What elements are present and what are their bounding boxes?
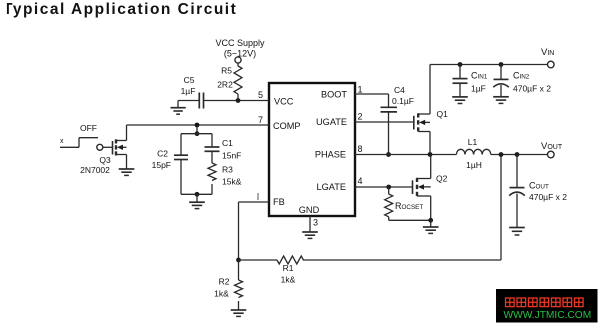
wire RC top rail — [181, 133, 212, 135]
svg-text:470µF x 2: 470µF x 2 — [529, 192, 567, 202]
label 1uF — [181, 86, 196, 96]
ground (COUT) — [509, 228, 525, 236]
label VOUT — [541, 141, 563, 152]
label 1uH — [466, 160, 482, 170]
svg-text:OFF: OFF — [80, 123, 97, 133]
svg-text:15k&: 15k& — [222, 177, 242, 187]
svg-text:15pF: 15pF — [152, 160, 171, 170]
label (5~12V) — [224, 49, 256, 59]
svg-text:VOUT: VOUT — [541, 141, 563, 152]
pin label LGATE — [317, 182, 346, 192]
svg-text:1: 1 — [357, 85, 362, 95]
wire GND pin 3 — [309, 216, 311, 232]
svg-text:L1: L1 — [468, 137, 478, 147]
svg-text:Typical Application Circuit: Typical Application Circuit — [3, 1, 237, 18]
svg-text:2N7002: 2N7002 — [80, 165, 110, 175]
node C4/PHASE junction — [386, 152, 391, 157]
label Q1 — [437, 109, 449, 119]
resistor R2 — [235, 260, 243, 310]
watermark chinese text — [506, 298, 584, 307]
label 2N7002 — [80, 165, 110, 175]
label CIN1 — [471, 71, 488, 81]
pin label FB — [273, 197, 285, 207]
label Rocset — [395, 201, 423, 211]
node PHASE/Q1 source junction — [428, 152, 433, 157]
wire VIN rail — [430, 64, 547, 66]
capacitor CIN2 — [493, 65, 509, 97]
transistor Q3 — [113, 125, 127, 156]
svg-text:Q1: Q1 — [437, 109, 449, 119]
svg-text:GND: GND — [299, 205, 320, 215]
svg-text:2: 2 — [357, 112, 362, 122]
ground (CIN1) — [452, 97, 468, 104]
node COMP junction — [195, 123, 200, 134]
label L1 — [468, 137, 478, 147]
svg-text:0.1µF: 0.1µF — [392, 96, 414, 106]
ground (CIN2) — [493, 97, 509, 104]
svg-text:1µH: 1µH — [466, 160, 482, 170]
IC U1 body — [269, 83, 355, 216]
pin number 1 — [357, 85, 362, 95]
label 15nF — [222, 151, 241, 161]
FB pin tick mark — [257, 193, 259, 200]
node FB divider junction — [236, 258, 241, 263]
svg-text:UGATE: UGATE — [316, 117, 347, 127]
svg-text:BOOT: BOOT — [321, 90, 347, 100]
svg-text:R2: R2 — [219, 277, 230, 287]
label 1k ohm (R1) — [281, 275, 296, 285]
terminal VIN — [548, 61, 555, 68]
svg-text:LGATE: LGATE — [317, 182, 346, 192]
pin number 8 — [357, 144, 362, 154]
capacitor C4 — [381, 107, 398, 154]
resistor R5 — [234, 63, 242, 100]
capacitor COUT — [509, 155, 525, 228]
wire LGATE — [355, 186, 413, 188]
node VCC junction — [236, 98, 241, 103]
pin label COMP — [273, 121, 301, 131]
node RC bottom junction — [195, 192, 200, 197]
svg-text:4: 4 — [357, 176, 362, 186]
label OFF — [80, 123, 97, 133]
svg-text:Q2: Q2 — [436, 174, 448, 184]
svg-text:PHASE: PHASE — [315, 150, 346, 160]
watermark url text — [504, 310, 592, 321]
svg-text:CIN2: CIN2 — [513, 71, 530, 81]
svg-text:R3: R3 — [222, 165, 233, 175]
svg-text:x: x — [60, 138, 64, 145]
Q3 gate terminal circle — [97, 144, 103, 150]
ground (Q3 source) — [119, 155, 135, 176]
svg-text:COMP: COMP — [273, 121, 301, 131]
label C1 — [222, 138, 233, 148]
ground (IC GND) — [302, 232, 318, 238]
node Q2 source/ground junction — [428, 218, 433, 223]
svg-text:C4: C4 — [394, 85, 405, 95]
terminal VOUT — [548, 151, 555, 158]
svg-text:1µF: 1µF — [471, 84, 486, 94]
label COUT — [529, 181, 549, 191]
label C4 — [394, 85, 405, 95]
VCC supply terminal — [235, 57, 241, 63]
pin label VCC — [274, 97, 294, 107]
label 470uF x 2 (COUT) — [529, 192, 567, 202]
wire RC bottom rail — [181, 193, 212, 195]
ground (Q2 source) — [423, 220, 439, 233]
wire VOUT rail — [491, 154, 548, 156]
pin label BOOT — [321, 90, 347, 100]
pin number 5 — [258, 90, 263, 100]
svg-text:COUT: COUT — [529, 181, 549, 191]
label 1k ohm (R2) — [214, 289, 229, 299]
label C5 — [184, 75, 195, 85]
label R5 — [221, 66, 232, 76]
wire FB node to R1 — [239, 259, 278, 261]
node LGATE/Rocset junction — [386, 185, 391, 190]
wire Q2 source rail — [389, 219, 431, 221]
label Q2 — [436, 174, 448, 184]
wire PHASE — [355, 154, 456, 156]
pin number 7 — [258, 115, 263, 125]
svg-text:VCC Supply: VCC Supply — [215, 38, 265, 48]
label 15pF — [152, 160, 171, 170]
pin number 2 — [357, 112, 362, 122]
svg-text:3: 3 — [313, 218, 318, 228]
ground (C5) — [171, 101, 186, 115]
label Q3 — [99, 155, 111, 165]
svg-text:(5~12V): (5~12V) — [224, 49, 256, 59]
wire R1 to feedback riser — [303, 155, 501, 261]
label R3 — [222, 165, 233, 175]
label C2 — [157, 149, 168, 159]
resistor R1 — [277, 256, 303, 264]
svg-text:C5: C5 — [184, 75, 195, 85]
capacitor C1 — [205, 134, 220, 163]
wire Q3 gate — [103, 146, 113, 148]
node CIN2 junction — [499, 62, 504, 67]
label 0.1uF — [392, 96, 414, 106]
svg-text:R5: R5 — [221, 66, 232, 76]
svg-text:1k&: 1k& — [214, 289, 229, 299]
label 470uF x 2 (CIN2) — [513, 84, 551, 94]
svg-text:FB: FB — [273, 197, 285, 207]
pin label UGATE — [316, 117, 347, 127]
svg-text:7: 7 — [258, 115, 263, 125]
svg-text:470µF x 2: 470µF x 2 — [513, 84, 551, 94]
node CIN1 junction — [458, 62, 463, 67]
pin number 3 — [313, 218, 318, 228]
svg-text:Q3: Q3 — [99, 155, 111, 165]
wire UGATE — [355, 121, 414, 123]
label 15k ohm — [222, 177, 242, 187]
node feedback junction — [499, 152, 504, 157]
resistor Rocset — [385, 187, 393, 220]
capacitor C2 — [174, 134, 188, 195]
label VCC Supply — [215, 38, 265, 48]
svg-text:VIN: VIN — [541, 47, 554, 58]
wire COMP — [127, 124, 270, 126]
svg-text:8: 8 — [357, 144, 362, 154]
label VIN — [541, 47, 554, 58]
svg-text:VCC: VCC — [274, 97, 294, 107]
svg-text:15nF: 15nF — [222, 151, 241, 161]
pin label PHASE — [315, 150, 346, 160]
inductor L1 — [456, 149, 490, 154]
svg-text:R1: R1 — [283, 263, 294, 273]
watermark box — [496, 289, 598, 323]
label R2 — [219, 277, 230, 287]
svg-text:WWW.JTMIC.COM: WWW.JTMIC.COM — [504, 310, 592, 321]
svg-text:1µF: 1µF — [181, 86, 196, 96]
switch lever — [60, 138, 98, 148]
svg-text:5: 5 — [258, 90, 263, 100]
switch input mark — [60, 138, 64, 145]
transistor Q1 — [414, 65, 430, 155]
svg-text:C2: C2 — [157, 149, 168, 159]
node RC network top junction — [195, 131, 200, 136]
label 1uF (CIN1) — [471, 84, 486, 94]
label 2R2 — [217, 80, 233, 90]
svg-text:C1: C1 — [222, 138, 233, 148]
ground (RC network) — [189, 194, 205, 208]
pin number 4 — [357, 176, 362, 186]
svg-text:ROCSET: ROCSET — [395, 201, 423, 211]
title — [0, 0, 237, 20]
wire VCC input rail — [178, 100, 269, 102]
pin label GND — [299, 205, 320, 215]
wire FB — [239, 202, 270, 260]
node COUT junction — [515, 152, 520, 157]
label R1 — [283, 263, 294, 273]
svg-text:CIN1: CIN1 — [471, 71, 488, 81]
wire BOOT — [355, 94, 389, 107]
svg-text:1k&: 1k& — [281, 275, 296, 285]
svg-text:2R2: 2R2 — [217, 80, 233, 90]
capacitor C5 — [199, 93, 203, 109]
label CIN2 — [513, 71, 530, 81]
ground (R2) — [231, 310, 247, 316]
capacitor CIN1 — [453, 65, 468, 97]
transistor Q2 — [413, 155, 431, 221]
resistor R3 — [208, 163, 216, 194]
